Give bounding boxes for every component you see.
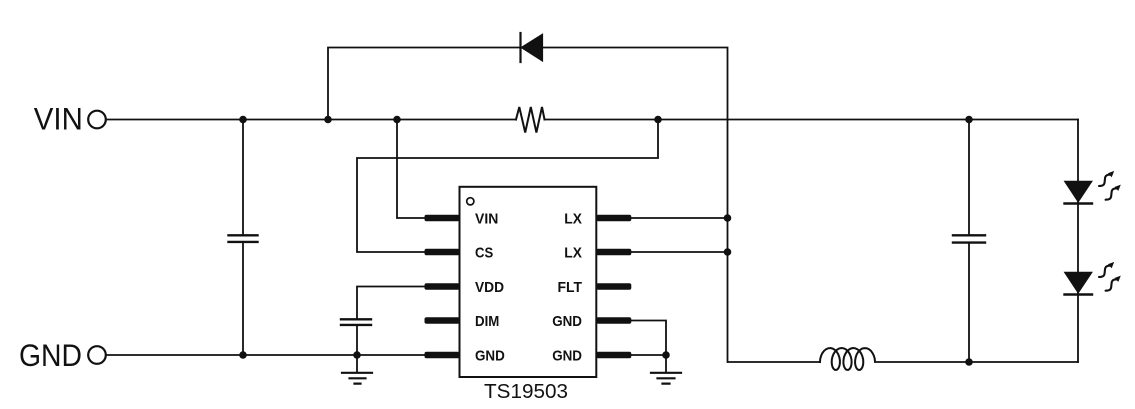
svg-text:GND: GND [475,349,505,365]
svg-text:CS: CS [475,246,493,262]
svg-text:VDD: VDD [475,280,504,296]
svg-text:DIM: DIM [475,314,499,330]
svg-text:GND: GND [19,337,82,373]
svg-text:VIN: VIN [475,212,498,228]
svg-text:LX: LX [564,246,582,262]
svg-text:LX: LX [564,212,582,228]
svg-text:FLT: FLT [558,280,583,296]
svg-text:GND: GND [552,314,582,330]
svg-text:GND: GND [552,349,582,365]
svg-text:TS19503: TS19503 [484,381,568,403]
svg-text:VIN: VIN [34,101,83,137]
